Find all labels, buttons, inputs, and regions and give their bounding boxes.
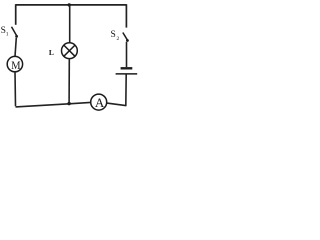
svg-text:M: M bbox=[11, 60, 21, 73]
svg-text:L: L bbox=[49, 48, 54, 57]
lamp L cross stroke 1 bbox=[64, 45, 75, 56]
wire switch S1 to motor bbox=[15, 38, 16, 57]
wire left upper (top-left corner to switch S1) bbox=[15, 4, 17, 25]
node top junction (lamp branch to top wire) bbox=[68, 3, 71, 6]
wire lamp top (top junction to lamp) bbox=[69, 5, 71, 43]
ammeter A bbox=[91, 94, 107, 110]
lamp L (circle) bbox=[62, 43, 78, 59]
motor M bbox=[7, 56, 22, 71]
wire top-right corner to switch S2 bbox=[125, 4, 127, 27]
battery long plate (bottom) bbox=[116, 73, 138, 75]
switch S2 blade (open) bbox=[123, 33, 128, 42]
wire ammeter to bottom-right corner bbox=[107, 103, 126, 106]
wire motor to bottom-left corner bbox=[14, 72, 17, 106]
svg-text:1: 1 bbox=[6, 31, 9, 37]
switch S1 contact dot bbox=[15, 35, 18, 38]
switch S2 contact dot bbox=[126, 39, 129, 42]
wire top horizontal bbox=[16, 4, 127, 6]
wire battery to switch S2 bbox=[126, 42, 128, 67]
switch S1 blade (open) bbox=[12, 27, 18, 37]
wire bottom (left corner to ammeter) bbox=[16, 102, 91, 107]
svg-text:S: S bbox=[111, 30, 116, 40]
wire right lower (bottom-right corner to battery) bbox=[125, 74, 127, 106]
wire lamp bottom (lamp to bottom junction) bbox=[68, 59, 70, 104]
node bottom junction (lamp branch to bottom wire) bbox=[67, 102, 70, 105]
lamp L cross stroke 2 bbox=[64, 45, 75, 56]
svg-text:2: 2 bbox=[117, 36, 120, 42]
battery short thick plate (top) bbox=[121, 67, 133, 69]
svg-text:A: A bbox=[95, 95, 105, 110]
